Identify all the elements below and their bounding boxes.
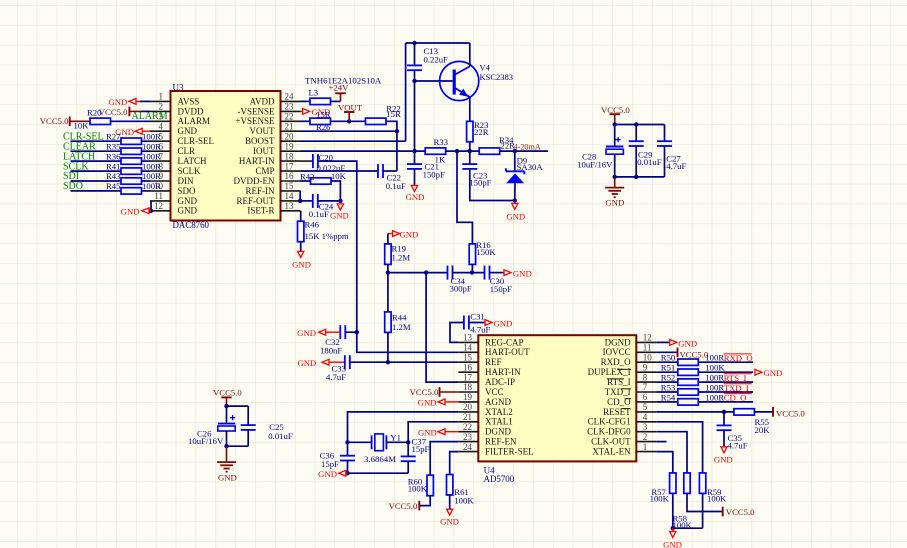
svg-text:GND: GND (764, 368, 783, 378)
capacitor C31 4.7uF (463, 316, 465, 330)
svg-text:11: 11 (643, 343, 652, 353)
svg-text:24: 24 (285, 92, 295, 102)
capacitor C36 15pF (347, 442, 349, 456)
svg-text:R52: R52 (661, 373, 675, 383)
junction D9 (513, 149, 517, 153)
resistor R41 100R (121, 168, 142, 174)
power port GND at U3 pin 23 (301, 110, 303, 112)
svg-text:DVDD-EN: DVDD-EN (234, 176, 275, 186)
capacitor C22 0.1uF (301, 170, 379, 172)
wire top collector rail (406, 42, 470, 44)
wire XTAL-EN to R57 (656, 452, 673, 473)
wire emitter to R23 (469, 97, 471, 121)
svg-text:100R: 100R (142, 151, 161, 161)
svg-text:VCC: VCC (485, 387, 504, 397)
svg-text:2: 2 (159, 102, 164, 112)
svg-text:AVSS: AVSS (178, 96, 200, 106)
capacitor C24 0.1uF (301, 200, 314, 202)
svg-text:R51: R51 (661, 363, 675, 373)
svg-text:R27: R27 (106, 131, 121, 141)
resistor R26 15R (301, 120, 311, 122)
svg-text:AVDD: AVDD (250, 96, 275, 106)
U4 pins right (636, 341, 656, 343)
svg-text:GND: GND (513, 268, 532, 278)
svg-text:GND: GND (440, 516, 459, 526)
wire SCLK to R41 (71, 170, 122, 172)
svg-text:HART-IN: HART-IN (239, 156, 275, 166)
svg-text:20: 20 (463, 402, 473, 412)
svg-text:GND: GND (108, 97, 127, 107)
svg-text:REF-OUT: REF-OUT (237, 196, 276, 206)
svg-text:CLR: CLR (178, 146, 196, 156)
svg-text:15: 15 (285, 181, 295, 191)
svg-text:AGND: AGND (485, 397, 511, 407)
svg-text:300pF: 300pF (450, 283, 472, 293)
svg-text:CLR-SEL: CLR-SEL (178, 136, 215, 146)
svg-text:12: 12 (154, 201, 163, 211)
svg-text:1: 1 (643, 442, 648, 452)
resistor R19 1.2M (387, 234, 389, 244)
svg-text:15K 1%ppm: 15K 1%ppm (305, 231, 349, 241)
junction IOUT R23/C23 (468, 149, 472, 153)
wire cap cluster top (615, 124, 665, 126)
svg-text:R45: R45 (106, 181, 120, 191)
power port GND below C35 (721, 447, 727, 453)
svg-text:ALARM: ALARM (132, 111, 168, 122)
svg-text:100R: 100R (705, 382, 724, 392)
wire C30 to GND (489, 272, 504, 274)
IC U3 DAC8760 body (171, 91, 281, 221)
U4 active-low overlines (617, 368, 631, 370)
resistor R51 100K (656, 371, 678, 373)
wire R26 to R22 (331, 120, 366, 122)
svg-text:V4: V4 (480, 62, 491, 72)
svg-text:R41: R41 (106, 161, 120, 171)
junction C26 bottom (224, 444, 228, 448)
svg-text:5: 5 (643, 402, 648, 412)
power port GND right of C30 (504, 270, 511, 276)
wire R16 to divider node (471, 264, 473, 272)
svg-text:XTAL1: XTAL1 (485, 417, 513, 427)
svg-text:100K: 100K (454, 496, 474, 506)
wire CLK-DFG0 to R58 (656, 432, 687, 473)
wire R22 down to VOUT net (386, 121, 397, 131)
svg-text:2: 2 (643, 432, 648, 442)
svg-text:R46: R46 (305, 220, 320, 230)
svg-text:R53: R53 (661, 382, 675, 392)
svg-text:R36: R36 (106, 151, 121, 161)
wire BOOST up to collector (405, 43, 407, 141)
wire R52 right (698, 381, 753, 383)
resistor R27 100R (121, 138, 142, 144)
svg-text:0.22uF: 0.22uF (424, 55, 449, 65)
junction R16 bottom (470, 270, 474, 274)
capacitor C37 15pF (407, 442, 409, 456)
power port GND below D9 (512, 203, 518, 209)
junction cluster top mid (634, 122, 638, 126)
svg-text:R54: R54 (661, 392, 676, 402)
svg-text:FILTER-SEL: FILTER-SEL (485, 447, 534, 457)
power port GND earth top cluster (614, 177, 616, 188)
resistor R54 100R (656, 401, 678, 403)
U4 pins left (458, 341, 478, 343)
svg-text:GND: GND (318, 469, 337, 479)
svg-text:RXD_O: RXD_O (601, 357, 632, 367)
svg-text:100R: 100R (142, 171, 161, 181)
svg-text:11: 11 (154, 191, 163, 201)
svg-text:20: 20 (285, 131, 295, 141)
wire R58 to VCC (687, 493, 723, 511)
svg-text:XTAL2: XTAL2 (485, 407, 513, 417)
svg-text:100K: 100K (707, 493, 727, 503)
svg-text:GND: GND (218, 472, 237, 482)
svg-text:TXD_I: TXD_I (724, 383, 749, 393)
resistor R61 100K (447, 475, 453, 496)
wire C20 to HART-OUT vertical (318, 161, 459, 352)
svg-text:VCC5.0: VCC5.0 (213, 388, 242, 398)
svg-text:20K: 20K (755, 425, 771, 435)
svg-text:REF-IN: REF-IN (246, 186, 276, 196)
svg-text:CLK-CFG1: CLK-CFG1 (588, 417, 631, 427)
svg-text:15pF: 15pF (412, 444, 430, 454)
svg-text:VCC5.0: VCC5.0 (776, 408, 805, 418)
svg-text:1.2M: 1.2M (392, 322, 411, 332)
wire crystal right (386, 441, 408, 443)
transistor V4 KSC2383 (440, 61, 479, 100)
svg-text:100R: 100R (705, 373, 724, 383)
power port GND below R61 (449, 495, 451, 509)
svg-text:DAC8760: DAC8760 (173, 220, 210, 230)
svg-text:16: 16 (285, 171, 295, 181)
svg-text:VCC5.0: VCC5.0 (410, 387, 439, 397)
svg-text:REF: REF (485, 357, 502, 367)
wire CLK-OUT stub (656, 441, 666, 443)
IC U4 AD5700 body (478, 335, 636, 461)
wire C26 top (227, 405, 249, 407)
wire R45 to pin (142, 190, 151, 192)
svg-text:100K: 100K (705, 363, 725, 373)
svg-text:GND: GND (178, 126, 198, 136)
svg-text:GND: GND (678, 338, 697, 348)
capacitor C35 4.7uF (723, 412, 725, 426)
svg-text:GND: GND (121, 206, 140, 216)
power port GND right of C31 (469, 322, 485, 324)
resistor R50 100R (656, 361, 678, 363)
svg-text:GND: GND (400, 229, 419, 239)
wire R55 to VCC (754, 411, 773, 413)
svg-text:100R: 100R (142, 131, 161, 141)
wire XTAL1 (408, 422, 458, 443)
svg-text:19: 19 (463, 392, 473, 402)
svg-text:10K: 10K (74, 120, 90, 130)
resistor R35 100R (121, 148, 142, 154)
svg-text:VCC5.0: VCC5.0 (40, 116, 69, 126)
junction at U3 pin 12 (149, 209, 153, 213)
wire SDI to R43 (71, 180, 122, 182)
svg-text:13: 13 (285, 201, 295, 211)
svg-text:150pF: 150pF (469, 178, 491, 188)
svg-text:GND: GND (406, 192, 425, 202)
wire CLR-SEL to R27 (71, 140, 122, 142)
junction VOUT (395, 129, 399, 133)
svg-text:C31: C31 (470, 312, 484, 322)
svg-text:100R: 100R (142, 181, 161, 191)
junction REF/R44 (386, 360, 390, 364)
svg-text:L3: L3 (309, 87, 319, 97)
svg-text:14: 14 (285, 191, 295, 201)
svg-text:REG-CAP: REG-CAP (485, 337, 524, 347)
svg-text:+24V: +24V (329, 83, 350, 93)
resistor R45 100R (121, 188, 142, 194)
junction crystal left (345, 440, 349, 444)
svg-text:100R: 100R (142, 141, 161, 151)
svg-text:AD5700: AD5700 (484, 474, 515, 484)
capacitor C13 0.22uF (414, 43, 416, 66)
wire R34 to loop output (500, 150, 548, 152)
svg-text:GND: GND (297, 328, 316, 338)
svg-text:ISET-R: ISET-R (247, 206, 274, 216)
junction IOUT adc-tap (455, 149, 459, 153)
svg-text:4.7uF: 4.7uF (728, 441, 748, 451)
wire C26 bottom (227, 445, 249, 447)
svg-text:10uF/16V: 10uF/16V (577, 159, 613, 169)
svg-text:LATCH: LATCH (178, 156, 208, 166)
capacitor C26 10uF/16V electrolytic (226, 406, 228, 424)
svg-text:GND: GND (605, 198, 624, 208)
svg-text:R26: R26 (316, 122, 331, 132)
capacitor C25 0.01uF (247, 406, 249, 425)
resistor R42 10K (301, 180, 311, 182)
svg-text:R33: R33 (434, 137, 448, 147)
resistor R60 100K (427, 475, 433, 496)
svg-text:4.7uF: 4.7uF (326, 372, 346, 382)
svg-text:23: 23 (463, 432, 473, 442)
svg-text:R50: R50 (661, 353, 676, 363)
wire BOOST U3 pin 20 (301, 140, 406, 142)
wire R41 to pin (142, 170, 151, 172)
svg-text:18: 18 (463, 382, 473, 392)
junction REF-OUT (298, 199, 302, 203)
wire R44 to REF node (387, 332, 389, 362)
wire R27 to pin (142, 140, 151, 142)
svg-text:22: 22 (285, 112, 294, 122)
wire IOUT down to R16 (457, 151, 472, 244)
svg-text:4.7uF: 4.7uF (666, 161, 686, 171)
svg-text:1.2M: 1.2M (392, 253, 411, 263)
junction C32 tap (355, 330, 359, 334)
capacitor C32 180nF (339, 325, 341, 339)
svg-text:10: 10 (643, 352, 653, 362)
svg-text:10K: 10K (331, 171, 347, 181)
svg-text:BOOST: BOOST (245, 136, 275, 146)
svg-text:21: 21 (285, 121, 294, 131)
svg-text:GND: GND (178, 206, 198, 216)
wire R42 down to C24 node (331, 181, 340, 201)
svg-text:21: 21 (463, 412, 472, 422)
wire REG-CAP to C31 (450, 323, 464, 343)
wire L3 to +24V (331, 100, 341, 102)
svg-text:150K: 150K (476, 247, 496, 257)
resistor R52 100R (656, 381, 678, 383)
resistor R20 10K (90, 118, 111, 124)
svg-text:HART-OUT: HART-OUT (485, 347, 530, 357)
svg-text:VCC5.0: VCC5.0 (726, 507, 755, 517)
svg-text:100R: 100R (705, 392, 724, 402)
svg-text:DGND: DGND (605, 337, 631, 347)
wire R54 right (698, 401, 753, 403)
svg-text:4: 4 (643, 412, 648, 422)
resistor R58 100K (684, 473, 690, 494)
svg-text:12: 12 (643, 333, 652, 343)
wire CLEAR to R35 (71, 150, 122, 152)
svg-text:15pF: 15pF (321, 459, 339, 469)
wire base (415, 80, 453, 82)
power port GND at R51 (755, 369, 762, 375)
capacitor C23 150pF (469, 151, 471, 164)
svg-text:GND: GND (178, 196, 198, 206)
wire CLK-CFG1 to R59 (656, 422, 702, 473)
resistor R44 1.2M (387, 273, 389, 312)
junction C24 right (338, 199, 342, 203)
svg-text:Y1: Y1 (390, 432, 401, 442)
wire cap cluster bottom (615, 176, 665, 178)
resistor R43 100R (121, 178, 142, 184)
power port GND earth at C26 (226, 446, 228, 462)
junction C36 bottom (345, 471, 349, 475)
svg-text:14: 14 (463, 343, 473, 353)
wire R20 to U3 pin 3 (111, 120, 151, 122)
junction R19/R44 (386, 270, 390, 274)
wire R60 to VCC (419, 496, 430, 506)
wire XTAL2 (348, 412, 459, 442)
power port VCC5.0 at R60 (418, 501, 420, 511)
junction crystal right (406, 440, 410, 444)
resistor R55 20K (734, 409, 755, 415)
junction C13 top (412, 41, 416, 45)
svg-text:3.6864M: 3.6864M (364, 454, 396, 464)
svg-text:180nF: 180nF (320, 346, 342, 356)
svg-text:1: 1 (159, 92, 164, 102)
diode D9 SA30A TVS (514, 151, 516, 171)
power port VCC5.0 at IOVCC (656, 351, 677, 353)
svg-text:GND: GND (506, 211, 525, 221)
wire base node to IOUT (414, 81, 416, 151)
wire C34 to C30 (452, 272, 485, 274)
power port VCC5.0 at R58 (722, 507, 724, 517)
resistor R46 15K (300, 211, 302, 221)
power port GND bottom right (672, 528, 674, 531)
svg-text:DGND: DGND (485, 427, 511, 437)
svg-text:R42: R42 (300, 171, 314, 181)
svg-text:SA30A: SA30A (517, 162, 544, 172)
junction ADC tap (424, 270, 428, 274)
svg-text:SDO: SDO (178, 186, 197, 196)
wire SDO to R45 (71, 190, 122, 192)
svg-text:7: 7 (643, 382, 648, 392)
resistor R53 100R (656, 391, 678, 393)
wire R51 right (698, 371, 753, 373)
svg-text:R20: R20 (87, 108, 102, 118)
svg-text:DIN: DIN (178, 176, 194, 186)
svg-text:10uF/16V: 10uF/16V (188, 436, 224, 446)
resistor R57 100K (670, 473, 676, 494)
junction cluster top left (613, 122, 617, 126)
junction IOUT base-tap (412, 149, 416, 153)
svg-text:XTAL-EN: XTAL-EN (592, 447, 631, 457)
svg-text:100R: 100R (705, 353, 724, 363)
svg-text:9: 9 (643, 362, 648, 372)
crystal Y1 3.6864M (371, 435, 373, 449)
resistor R33 1K (425, 148, 446, 154)
svg-text:SCLK: SCLK (178, 166, 202, 176)
wire REF row (350, 361, 459, 363)
U3 pins right (281, 100, 301, 102)
svg-text:DUPLEX_I: DUPLEX_I (588, 367, 631, 377)
svg-text:15: 15 (463, 352, 473, 362)
wire R33 to R34 (446, 150, 480, 152)
svg-text:100K: 100K (408, 484, 428, 494)
power port GND below C24 (337, 204, 343, 210)
svg-text:GND: GND (494, 318, 513, 328)
power port GND below C21 (411, 186, 417, 192)
svg-text:3: 3 (643, 422, 648, 432)
junction C26 top (224, 404, 228, 408)
junction D9 bottom (513, 198, 517, 202)
svg-text:19: 19 (285, 141, 295, 151)
wire U3 pin 11 to pin 12 (150, 201, 152, 211)
resistor R22 15R (366, 118, 387, 124)
svg-text:4.7uF: 4.7uF (470, 324, 490, 334)
svg-text:RXD_O: RXD_O (724, 353, 753, 363)
inductor L3 TNH61E2A102S10A (301, 100, 311, 102)
resistor R23 22R (467, 121, 473, 142)
svg-text:0.01uF: 0.01uF (637, 157, 662, 167)
wire LATCH to R36 (71, 160, 122, 162)
wire VOUT down to C22 (396, 131, 398, 171)
capacitor C28 10uF/16V electrolytic (614, 125, 616, 147)
wire R36 to pin (142, 160, 151, 162)
wire VOUT U3 pin 21 (301, 130, 397, 132)
resistor R16 150K (469, 244, 475, 265)
capacitor C21 150pF (414, 151, 416, 164)
svg-text:150pF: 150pF (423, 169, 445, 179)
wire RESET row to R55 (656, 411, 734, 413)
junction cluster bottom left (613, 175, 617, 179)
svg-text:ADC-IP: ADC-IP (485, 377, 515, 387)
wire REF-EN to R60 (430, 442, 458, 476)
svg-text:DVDD: DVDD (178, 106, 204, 116)
wire REF-IN to REF-OUT (299, 191, 301, 201)
svg-text:17: 17 (463, 372, 473, 382)
wire ADC tap down to ADC-IP (426, 273, 458, 383)
svg-text:IOVCC: IOVCC (603, 347, 631, 357)
svg-text:6: 6 (643, 392, 648, 402)
junction cluster bottom mid (634, 175, 638, 179)
svg-text:REF-EN: REF-EN (485, 437, 517, 447)
capacitor C34 300pF (447, 266, 449, 280)
svg-text:ALARM: ALARM (178, 116, 211, 126)
power port GND below R46 (300, 242, 302, 252)
resistor R34 22R (479, 148, 500, 154)
svg-text:4: 4 (159, 121, 164, 131)
svg-text:HART-IN: HART-IN (485, 367, 521, 377)
svg-text:CMP: CMP (255, 166, 274, 176)
svg-text:23: 23 (285, 102, 295, 112)
svg-text:15R: 15R (316, 109, 331, 119)
junction VOUT port (347, 119, 351, 123)
svg-text:100K: 100K (650, 494, 670, 504)
svg-text:-VSENSE: -VSENSE (237, 106, 275, 116)
